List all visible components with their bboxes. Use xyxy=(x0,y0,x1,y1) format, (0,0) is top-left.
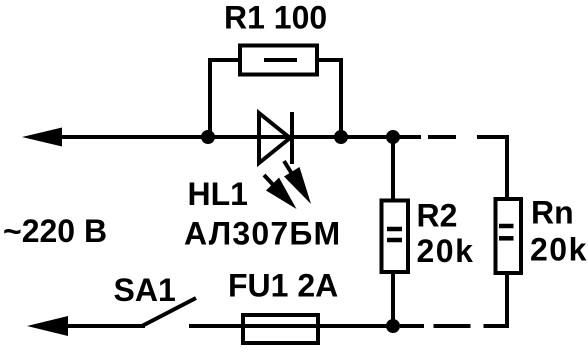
svg-text:20k: 20k xyxy=(417,233,475,269)
svg-text:20k: 20k xyxy=(530,232,588,268)
svg-text:АЛ307БМ: АЛ307БМ xyxy=(184,216,341,252)
svg-text:~220 В: ~220 В xyxy=(3,213,107,249)
svg-text:SA1: SA1 xyxy=(114,272,176,308)
svg-text:FU1 2A: FU1 2A xyxy=(228,268,338,304)
svg-text:R1 100: R1 100 xyxy=(224,0,327,36)
svg-text:Rn: Rn xyxy=(531,195,574,231)
svg-text:R2: R2 xyxy=(417,198,458,234)
svg-text:HL1: HL1 xyxy=(188,176,248,212)
